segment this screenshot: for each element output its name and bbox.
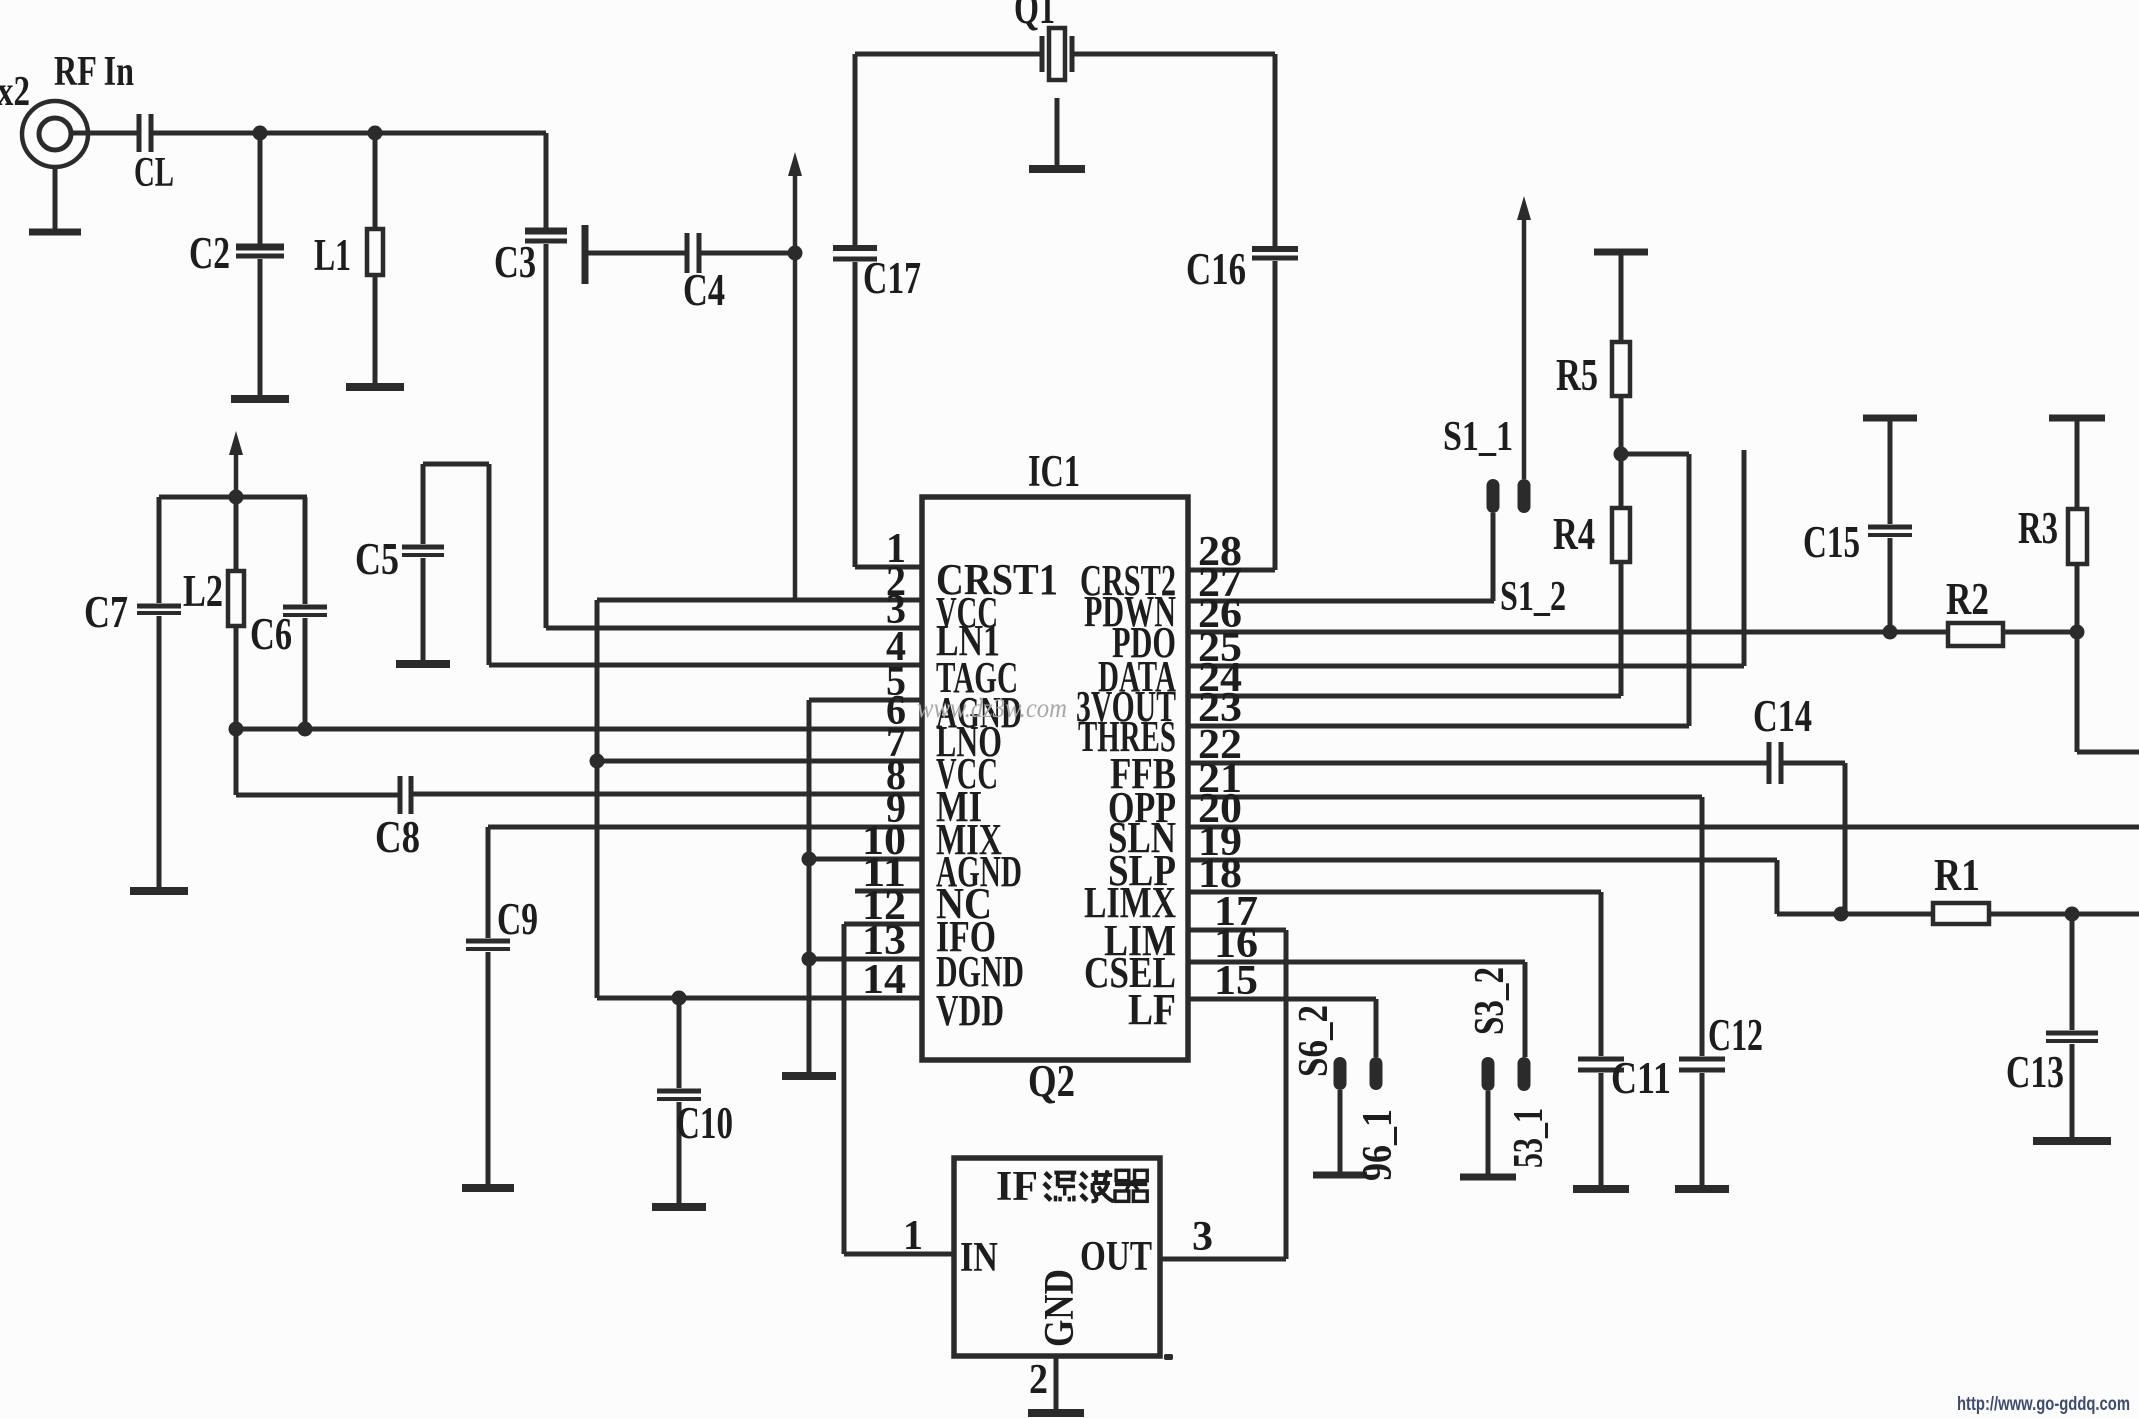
- label R5: [1556, 350, 1598, 400]
- svg-text:C5: C5: [355, 534, 399, 584]
- svg-text:R4: R4: [1553, 509, 1595, 559]
- wire connector to CL: [71, 131, 139, 136]
- pin number 26: [1198, 591, 1242, 637]
- label 96_1: [1355, 1109, 1401, 1181]
- svg-text:VDD: VDD: [936, 986, 1004, 1035]
- pin 1 label of IF filter: [903, 1213, 923, 1259]
- svg-text:C4: C4: [683, 265, 725, 315]
- switch S3_2 contact: [1518, 1057, 1531, 1091]
- pin label DATA: [1098, 652, 1176, 701]
- svg-text:S6_2: S6_2: [1291, 1005, 1337, 1077]
- wire pin 12 IFO: [844, 922, 922, 927]
- label C2: [189, 228, 230, 278]
- pin label AGND: [936, 847, 1022, 896]
- svg-text:S3_2: S3_2: [1467, 967, 1513, 1035]
- wire AGND vertical pin5-pin10-pin13: [807, 700, 812, 1074]
- label Q2: [1028, 1056, 1075, 1106]
- wire R3 node down and off right: [2077, 632, 2139, 752]
- pin label DGND: [936, 947, 1024, 996]
- svg-text:C16: C16: [1186, 244, 1246, 294]
- node junction R1/C13: [2065, 907, 2080, 922]
- ground S3: [1460, 1174, 1516, 1181]
- capacitor C9: [466, 941, 510, 1186]
- node junction C2: [253, 126, 268, 141]
- wire pin 9 MIX: [488, 825, 922, 830]
- label C14: [1753, 691, 1812, 741]
- pin number 8: [886, 753, 906, 799]
- pin number 22: [1198, 722, 1242, 768]
- pin label CSEL: [1084, 948, 1176, 997]
- node junction L2 bottom on LNO line: [229, 722, 244, 737]
- pin number 6: [886, 688, 906, 734]
- wire pin 1 CRST1: [855, 565, 922, 570]
- pin number 9: [886, 786, 906, 832]
- wire C5 top to TAGC descent: [423, 462, 489, 467]
- pin label LIM: [1104, 916, 1176, 965]
- label C15: [1803, 517, 1860, 567]
- switch S1_1 with arrow: [1517, 196, 1531, 513]
- speck artifact: [1164, 1354, 1173, 1360]
- wire pin 14 VDD: [597, 996, 922, 1001]
- svg-text:R5: R5: [1556, 350, 1598, 400]
- node junction C4/VCC arrow: [788, 246, 803, 261]
- node junction VCC pin7: [590, 754, 605, 769]
- capacitor C15: [1868, 527, 1912, 632]
- wire pin 24 3VOUT: [1188, 694, 1621, 699]
- svg-text:C14: C14: [1753, 691, 1812, 741]
- pin label IN: [960, 1235, 998, 1281]
- svg-text:CL: CL: [134, 150, 174, 196]
- capacitor C3: [525, 133, 567, 628]
- wire IFO vertical to IF filter IN: [842, 924, 847, 1254]
- wire pin 13 DGND: [809, 957, 922, 962]
- VCC arrow up (left): [229, 431, 243, 497]
- label C13: [2006, 1047, 2064, 1097]
- pin number 13: [862, 918, 906, 964]
- pin label GND (rotated): [1037, 1269, 1083, 1347]
- node junction AGND pin13: [802, 952, 817, 967]
- capacitor C14: [1769, 742, 1781, 784]
- label IF (IF filter): [996, 1164, 1038, 1210]
- label L2: [183, 566, 223, 616]
- wire pin 8 MI from C8: [411, 792, 922, 797]
- resistor R3: [2068, 509, 2087, 632]
- svg-text:96_1: 96_1: [1355, 1109, 1401, 1181]
- label S6_2: [1291, 1005, 1337, 1077]
- pin 2 label of IF filter: [1029, 1357, 1048, 1403]
- wire to IF filter pin 1: [844, 1252, 954, 1257]
- ground C10: [652, 1203, 706, 1211]
- IC U1 body IC1: [922, 497, 1188, 1060]
- pin label LF: [1128, 985, 1176, 1034]
- inductor L2: [228, 497, 244, 729]
- watermark www.dz3w.com: [917, 693, 1067, 723]
- wire pin 5 AGND: [809, 698, 922, 703]
- wire LF vertical to S6_2: [1374, 999, 1379, 1057]
- wire S6_1 to ground: [1338, 1090, 1343, 1173]
- node junction C6 bottom on LNO line: [298, 722, 313, 737]
- wire Q1 to C16 top: [1072, 52, 1275, 57]
- svg-text:1: 1: [903, 1213, 923, 1259]
- node junction R2/R3: [2070, 625, 2085, 640]
- capacitor C11: [1578, 1059, 1624, 1187]
- resistor R2: [1948, 623, 2003, 646]
- capacitor C17: [833, 54, 877, 567]
- wire pin 6 LNO: [236, 727, 922, 732]
- pin number 10: [862, 818, 906, 864]
- pin label MI: [936, 782, 982, 831]
- wire C4 to VCC node: [699, 251, 795, 256]
- wire to C8 left plate: [236, 793, 400, 798]
- pin label LNO: [936, 717, 1002, 766]
- label 53_1: [1506, 1108, 1552, 1168]
- label Q1: [1014, 0, 1055, 33]
- pin label VDD: [936, 986, 1004, 1035]
- svg-text:C3: C3: [494, 237, 536, 287]
- wire pin 17 LIM: [1188, 928, 1286, 933]
- ground AGND: [782, 1072, 836, 1080]
- wire pin 20 SLN: [1188, 825, 2139, 830]
- wire LNO corner down to C8: [234, 729, 239, 795]
- wire pin 26 PDO to R2: [1188, 630, 1948, 635]
- pin label LIMX: [1084, 878, 1176, 927]
- wire C14 to R1 node: [1781, 763, 1845, 914]
- pin number 12: [862, 883, 906, 929]
- svg-text:Q1: Q1: [1014, 0, 1055, 33]
- wire CSEL vertical to S3_2: [1523, 962, 1528, 1057]
- capacitor CL: [139, 114, 151, 152]
- ground C5: [396, 660, 450, 668]
- pin number 15: [1214, 958, 1258, 1004]
- capacitor C5: [402, 464, 444, 662]
- label CL: [134, 150, 174, 196]
- label C6: [250, 609, 292, 659]
- wire pin 7 VCC: [597, 759, 922, 764]
- svg-text:53_1: 53_1: [1506, 1108, 1552, 1168]
- pin number 28: [1198, 529, 1242, 575]
- ground C9: [462, 1184, 514, 1192]
- capacitor C8: [400, 776, 411, 814]
- ground S6: [1313, 1172, 1367, 1179]
- pin label 3VOUT: [1076, 682, 1176, 731]
- label RF In: [54, 49, 134, 95]
- connector X2 (RF In): [22, 101, 88, 167]
- wire bar to C4: [585, 251, 687, 256]
- label C9: [497, 894, 538, 944]
- svg-text:www.dz3w.com: www.dz3w.com: [917, 693, 1067, 723]
- wire top rail CL to C3: [151, 131, 546, 136]
- pin number 17: [1214, 889, 1258, 935]
- label S1_2: [1500, 574, 1566, 620]
- ground IF filter pin 2: [1028, 1409, 1084, 1417]
- svg-text:C17: C17: [863, 253, 921, 303]
- wire pin 23 THRES: [1188, 724, 1689, 729]
- wire pin 11 NC: [855, 889, 922, 894]
- wire C7 - L2 - C6 top: [159, 495, 307, 500]
- label R3: [2018, 503, 2058, 553]
- ground below Q1: [1029, 98, 1085, 169]
- svg-text:IC1: IC1: [1028, 446, 1080, 496]
- wire pin 10 AGND: [809, 857, 922, 862]
- pin 3 label of IF filter: [1192, 1214, 1213, 1260]
- power bar above C15: [1863, 418, 1917, 524]
- wire pin 25 DATA: [1188, 664, 1744, 669]
- pin number 1: [886, 526, 906, 572]
- svg-text:C12: C12: [1708, 1010, 1763, 1060]
- node junction L2 top: [229, 490, 244, 505]
- svg-text:3: 3: [1192, 1214, 1213, 1260]
- pin number 20: [1198, 786, 1242, 832]
- pin label PDWN: [1084, 587, 1176, 636]
- capacitor C6: [283, 497, 327, 729]
- capacitor C2: [236, 133, 284, 397]
- wire pin 3 LN1: [546, 626, 922, 631]
- pin number 4: [886, 624, 906, 670]
- pin number 25: [1198, 625, 1242, 671]
- label C7: [84, 587, 128, 637]
- svg-text:C2: C2: [189, 228, 230, 278]
- resistor R5: [1612, 342, 1630, 454]
- svg-text:15: 15: [1214, 958, 1258, 1004]
- switch S6_1 contact: [1334, 1057, 1347, 1090]
- pin label SLP: [1108, 846, 1176, 895]
- node junction L1: [368, 126, 383, 141]
- wire pin 18 LIMX: [1188, 890, 1601, 895]
- pin number 5: [886, 659, 906, 705]
- svg-text:C7: C7: [84, 587, 128, 637]
- pin number 23: [1198, 685, 1242, 731]
- pin label FFB: [1110, 749, 1176, 798]
- capacitor C13: [2046, 914, 2098, 1139]
- crystal Q1: [1042, 28, 1072, 80]
- pin label MIX: [936, 815, 1002, 864]
- watermark go-gddq.com: [1957, 1394, 2130, 1415]
- pin number 2: [886, 559, 906, 605]
- svg-text:C8: C8: [375, 812, 420, 862]
- svg-text:http://www.go-gddq.com: http://www.go-gddq.com: [1957, 1394, 2130, 1415]
- label C5: [355, 534, 399, 584]
- svg-text:RF In: RF In: [54, 49, 134, 95]
- label C3: [494, 237, 536, 287]
- wire DATA stub vertical: [1742, 450, 1747, 666]
- pin label PDO: [1112, 618, 1176, 667]
- node junction C15 on PDO line: [1883, 625, 1898, 640]
- pin label IFO: [936, 912, 996, 961]
- ground C12: [1675, 1185, 1729, 1193]
- node junction R5/R4: [1614, 447, 1629, 462]
- pin number 27: [1198, 560, 1242, 606]
- pin label TAGC: [936, 653, 1018, 702]
- wire MIX vertical to C9: [486, 827, 491, 938]
- ground C11: [1573, 1185, 1629, 1193]
- svg-text:C9: C9: [497, 894, 538, 944]
- label C11: [1611, 1053, 1671, 1103]
- pin number 16: [1214, 921, 1258, 967]
- wire R1 to right edge: [1989, 912, 2139, 917]
- wire S3_1 to ground: [1486, 1091, 1491, 1175]
- capacitor C7: [137, 497, 181, 889]
- label R1: [1934, 850, 1980, 900]
- wire LIMX vertical to C11: [1599, 892, 1604, 1056]
- wire TAGC vertical: [487, 464, 492, 665]
- svg-text:S1_1: S1_1: [1443, 414, 1513, 460]
- label x2: [0, 69, 30, 115]
- label C16: [1186, 244, 1246, 294]
- switch S3_1 contact: [1482, 1057, 1495, 1091]
- svg-text:Q2: Q2: [1028, 1056, 1075, 1106]
- pin number 3: [886, 587, 906, 633]
- wire THRES vertical: [1687, 454, 1692, 726]
- svg-text:R1: R1: [1934, 850, 1980, 900]
- power bar above R3: [2049, 418, 2105, 509]
- label C10: [676, 1098, 733, 1148]
- svg-text:LF: LF: [1128, 985, 1176, 1034]
- wire R4/R5 node to THRES descent: [1621, 452, 1689, 457]
- svg-text:R3: R3: [2018, 503, 2058, 553]
- wire S1_2 down to PDWN: [1491, 513, 1496, 601]
- wire OPP vertical to C12: [1700, 797, 1705, 1056]
- svg-text:x2: x2: [0, 69, 30, 115]
- node junction C10 on VDD line: [672, 991, 687, 1006]
- pin label OUT: [1080, 1234, 1152, 1280]
- label S3_2: [1467, 967, 1513, 1035]
- wire SLP descent to R1 line: [1777, 860, 1933, 914]
- pin label SLN: [1108, 813, 1176, 862]
- node junction AGND pin10: [802, 852, 817, 867]
- svg-text:IN: IN: [960, 1235, 998, 1281]
- svg-text:C11: C11: [1611, 1053, 1671, 1103]
- svg-text:R2: R2: [1946, 574, 1989, 624]
- switch S1_2 contact: [1487, 479, 1500, 513]
- switch S6_2 contact: [1370, 1057, 1383, 1090]
- resistor R4: [1612, 454, 1630, 696]
- pin number 18: [1198, 851, 1242, 897]
- pin number 19: [1198, 819, 1242, 865]
- VCC arrow up (center): [788, 152, 802, 600]
- svg-text:L2: L2: [183, 566, 223, 616]
- label C17: [863, 253, 921, 303]
- svg-text:C15: C15: [1803, 517, 1860, 567]
- svg-text:2: 2: [1029, 1357, 1048, 1403]
- pin label THRES: [1078, 712, 1176, 761]
- node junction C14/R1: [1834, 907, 1849, 922]
- svg-text:OUT: OUT: [1080, 1234, 1152, 1280]
- wire IF filter pin 3 to LIM: [1160, 930, 1286, 1259]
- ground C13: [2033, 1137, 2111, 1145]
- label IC1: [1028, 446, 1080, 496]
- label R2: [1946, 574, 1989, 624]
- wire pin 28 CRST2: [1188, 568, 1275, 573]
- pin label NC: [936, 879, 992, 928]
- ground C7: [130, 887, 188, 895]
- IF filter box: [954, 1158, 1160, 1356]
- electrode bar right of C3: [582, 225, 589, 284]
- pin number 21: [1198, 756, 1242, 802]
- wire pin 21 OPP: [1188, 795, 1702, 800]
- svg-text:C13: C13: [2006, 1047, 2064, 1097]
- label C8: [375, 812, 420, 862]
- label S1_1: [1443, 414, 1513, 460]
- wire pin 15 LF: [1188, 997, 1376, 1002]
- resistor R1: [1933, 903, 1989, 924]
- label C4: [683, 265, 725, 315]
- wire pin 27 PDWN: [1188, 599, 1494, 604]
- pin label LN1: [936, 616, 1000, 665]
- pin label VCC: [936, 749, 998, 798]
- label R4: [1553, 509, 1595, 559]
- label L1: [314, 230, 351, 280]
- pin label OPP: [1108, 783, 1176, 832]
- ground C2: [231, 395, 289, 403]
- ground L1: [346, 383, 404, 391]
- ground connector X2: [29, 167, 81, 232]
- svg-text:GND: GND: [1037, 1269, 1083, 1347]
- wire C17 top to Q1: [855, 52, 1042, 57]
- capacitor C16: [1252, 54, 1298, 570]
- pin label CRST1: [936, 555, 1058, 604]
- wire pin 16 CSEL: [1188, 960, 1525, 965]
- power bar above R5: [1594, 252, 1648, 342]
- svg-text:C6: C6: [250, 609, 292, 659]
- inductor L1: [367, 133, 383, 385]
- wire pin 4 TAGC: [489, 663, 922, 668]
- capacitor C4: [687, 233, 699, 273]
- wire IF filter pin 2 to ground: [1054, 1356, 1059, 1412]
- wire pin 2 VCC: [597, 598, 922, 603]
- wire R2 to R3 node: [2002, 630, 2077, 635]
- svg-text:C10: C10: [676, 1098, 733, 1148]
- svg-text:L1: L1: [314, 230, 351, 280]
- pin number 7: [886, 720, 906, 766]
- label 滤波器 (filter) hand-drawn glyphs: [1044, 1170, 1147, 1201]
- pin label CRST2: [1080, 556, 1176, 605]
- label C12: [1708, 1010, 1763, 1060]
- pin number 24: [1198, 655, 1242, 701]
- wire VCC vertical pin2-pin7-pin14: [595, 600, 600, 998]
- pin label VCC: [936, 588, 998, 637]
- svg-text:S1_2: S1_2: [1500, 574, 1566, 620]
- capacitor C10: [657, 998, 701, 1205]
- wire pin 22 FFB to C14: [1188, 761, 1769, 766]
- pin number 14: [862, 957, 906, 1003]
- pin label AGND: [936, 688, 1022, 737]
- capacitor C12: [1679, 1059, 1725, 1187]
- wire pin 19 SLP: [1188, 858, 1777, 863]
- pin number 11: [862, 850, 906, 896]
- svg-text:14: 14: [862, 957, 906, 1003]
- svg-text:IF: IF: [996, 1164, 1038, 1210]
